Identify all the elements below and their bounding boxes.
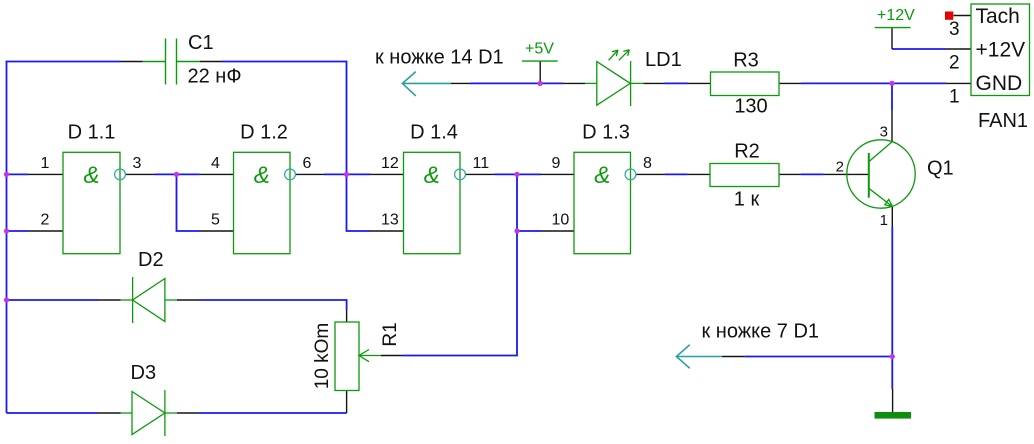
svg-text:13: 13 <box>381 212 399 229</box>
svg-text:10 kOm: 10 kOm <box>312 323 333 390</box>
wire pin 10 junction down to R1 wiper <box>403 231 518 356</box>
lead R3 right <box>779 82 801 84</box>
lead +5V symbol <box>539 61 541 83</box>
svg-text:2: 2 <box>836 159 844 176</box>
lead LD1 left <box>563 82 585 84</box>
svg-text:2: 2 <box>949 53 960 74</box>
svg-text:R1: R1 <box>380 322 401 346</box>
junction out 3 node <box>174 172 179 177</box>
svg-text:1 к: 1 к <box>734 189 760 211</box>
svg-text:D2: D2 <box>138 249 164 271</box>
svg-text:LD1: LD1 <box>645 49 682 71</box>
lead FAN1 pin 3 Tach <box>954 15 972 17</box>
lead pin 3 <box>125 173 154 175</box>
svg-text:4: 4 <box>211 155 220 172</box>
red pin-3 marker <box>945 12 953 20</box>
svg-text:к ножке 14 D1: к ножке 14 D1 <box>375 47 504 69</box>
svg-text:D 1.3: D 1.3 <box>582 122 630 144</box>
lead pin 8 <box>636 173 665 175</box>
wire out 3 to pin 4 <box>155 173 200 175</box>
svg-text:FAN1: FAN1 <box>978 110 1028 132</box>
lead R2 right <box>779 173 801 175</box>
lead pin 11 <box>465 173 494 175</box>
svg-text:8: 8 <box>643 155 652 172</box>
svg-text:C1: C1 <box>188 32 214 54</box>
wire left vertical bus (net A) <box>7 62 121 414</box>
lead bottom arrow <box>722 356 745 358</box>
lead D2 left <box>98 299 121 301</box>
lead D2 right <box>177 299 199 301</box>
svg-text:6: 6 <box>303 155 312 172</box>
svg-text:9: 9 <box>552 155 561 172</box>
lead Q1 collector <box>891 110 893 142</box>
svg-text:&: & <box>594 162 610 189</box>
wire junction to pin 12 <box>347 173 371 175</box>
wire D3 to R1 bottom <box>199 412 347 414</box>
wire pin 2 stub <box>7 230 29 232</box>
wire out 6 to junction <box>324 173 347 175</box>
lead pin 4 <box>200 173 234 175</box>
gate D1.3 (NAND) <box>574 152 636 253</box>
potentiometer R1 <box>335 322 381 391</box>
wire D2 to R1 top <box>199 300 347 310</box>
gate D1.4 (NAND) <box>404 152 466 253</box>
svg-text:GND: GND <box>976 72 1023 95</box>
junction D2 bus <box>4 297 9 302</box>
lead LD1 right <box>643 82 664 84</box>
power +5V <box>522 41 558 62</box>
ground <box>875 412 912 419</box>
svg-text:1: 1 <box>41 155 50 172</box>
connector FAN1 <box>971 4 1030 96</box>
svg-text:D3: D3 <box>131 362 157 384</box>
lead D3 right <box>177 412 199 414</box>
lead pin 9 <box>541 173 574 175</box>
lead pin 5 <box>200 230 234 232</box>
wire drop to pin 10 <box>517 174 541 231</box>
lead pin 6 <box>295 173 324 175</box>
svg-text:12: 12 <box>381 155 399 172</box>
lead pin 2 <box>29 230 64 232</box>
wire pin 1 stub <box>7 173 29 175</box>
wire R2 to Q1 base <box>801 173 824 175</box>
svg-text:2: 2 <box>41 212 50 229</box>
junction pin 2 bus <box>4 228 9 233</box>
svg-text:R2: R2 <box>734 140 760 162</box>
lead Q1 base <box>824 173 870 175</box>
svg-text:1: 1 <box>880 212 888 229</box>
gate D1.1 (NAND) <box>63 152 125 253</box>
svg-text:11: 11 <box>473 155 490 172</box>
lead pin 13 <box>371 230 404 232</box>
wire bus to D3 <box>7 412 99 414</box>
off-page arrow к ножке 14 D1 <box>402 72 451 96</box>
lead Q1 emitter <box>891 207 893 228</box>
svg-text:к ножке 7 D1: к ножке 7 D1 <box>702 321 820 343</box>
svg-text:22 нФ: 22 нФ <box>188 66 242 88</box>
lead R3 left <box>688 82 711 84</box>
lead pin 1 <box>29 173 64 175</box>
wire +12V symbol to FAN1 pin 2 <box>892 48 947 50</box>
wire emitter down to ground junction <box>891 227 893 389</box>
resistor R3 <box>711 72 780 96</box>
lead R1 top <box>346 310 348 322</box>
lead +12V symbol <box>891 28 893 50</box>
wire bus to D2 <box>7 299 99 301</box>
wire collector riser <box>891 83 893 110</box>
lead C1 right <box>200 61 222 63</box>
svg-text:3: 3 <box>880 124 888 141</box>
lead C1 left <box>120 61 143 63</box>
junction pin 1 bus <box>4 172 9 177</box>
lead pin 12 <box>371 173 404 175</box>
resistor R2 <box>710 164 779 187</box>
svg-text:D 1.1: D 1.1 <box>68 122 116 144</box>
junction pin 10 node <box>514 228 519 233</box>
wire bottom arrow to ground junction <box>745 356 893 358</box>
wire C1 right plate to vertical riser and pin 13 (net C) <box>222 62 371 232</box>
junction collector node <box>889 81 894 86</box>
svg-text:3: 3 <box>133 155 142 172</box>
wire top arrow to +5V tap and LED <box>471 82 564 84</box>
gate D1.2 (NAND) <box>234 152 296 253</box>
diode D3 <box>121 390 178 436</box>
capacitor C1 <box>143 39 201 85</box>
wire LED to R3 <box>665 82 689 84</box>
lead FAN1 pin 1 GND <box>947 82 972 84</box>
wire out 11 to pin 9 <box>495 173 542 175</box>
lead pin 10 <box>541 230 574 232</box>
svg-text:&: & <box>83 162 99 189</box>
svg-text:&: & <box>254 162 270 189</box>
lead R1 bottom <box>346 391 348 414</box>
svg-text:D 1.2: D 1.2 <box>240 122 288 144</box>
wire drop to pin 5 <box>177 174 200 231</box>
wire R3 to FAN1 GND pin <box>801 82 947 84</box>
junction +5V tap <box>538 81 543 86</box>
svg-text:Q1: Q1 <box>927 158 954 180</box>
svg-text:5: 5 <box>211 212 220 229</box>
lead D3 left <box>98 412 121 414</box>
svg-text:&: & <box>424 162 440 189</box>
wire out 8 to R2 <box>665 173 688 175</box>
svg-text:130: 130 <box>734 96 767 118</box>
svg-text:Tach: Tach <box>976 5 1020 28</box>
svg-text:+12V: +12V <box>976 38 1026 61</box>
LED LD1 <box>585 50 643 106</box>
svg-text:10: 10 <box>552 212 570 229</box>
lead R2 left <box>688 173 711 175</box>
junction out 11 node <box>514 172 519 177</box>
svg-text:+5V: +5V <box>525 41 554 58</box>
svg-text:D 1.4: D 1.4 <box>410 122 458 144</box>
svg-text:1: 1 <box>949 86 960 107</box>
junction emitter ground node <box>890 354 895 359</box>
svg-text:R3: R3 <box>733 50 759 72</box>
off-page arrow к ножке 7 D1 <box>676 345 721 369</box>
lead R1 wiper <box>381 355 403 357</box>
diode D2 <box>121 277 178 323</box>
junction out 6 node <box>344 172 349 177</box>
svg-text:+12V: +12V <box>877 7 915 24</box>
svg-text:3: 3 <box>949 19 960 40</box>
power +12V <box>875 7 916 28</box>
lead top arrow <box>451 82 471 84</box>
lead FAN1 pin 2 +12V <box>947 48 972 50</box>
transistor Q1 (NPN) <box>847 140 915 208</box>
lead ground <box>892 389 894 412</box>
